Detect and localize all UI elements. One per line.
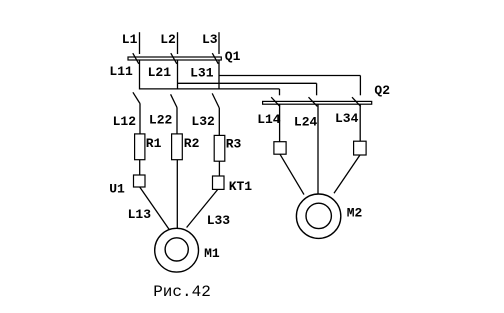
wire L24 segment (to motor M2) [317,104,319,194]
svg-text:Q2: Q2 [374,83,390,98]
Q1 pole 2 contact tick [171,53,177,64]
wire R2 to motor M1 [176,160,178,229]
svg-text:R1: R1 [146,136,162,151]
wire branch L11 to Q2 (horizontal) [140,88,280,90]
svg-text:L2: L2 [160,32,176,47]
svg-text:L11: L11 [109,64,133,79]
svg-text:L21: L21 [148,65,172,80]
resistor R2 [172,134,183,160]
wire L32 to R3 [218,108,220,135]
motor M2 outer circle [296,194,340,238]
svg-text:M2: M2 [347,205,363,220]
wire KT1 to motor M1 (diagonal L33) [187,189,218,227]
Q2 pole 2 contact tick [309,97,318,106]
svg-text:L31: L31 [190,65,214,80]
svg-text:Рис.42: Рис.42 [153,283,211,301]
svg-text:R3: R3 [226,136,242,151]
wire Q2 pole3 feed drop [359,76,361,96]
wire L11 vertical segment [139,60,141,90]
Q2 pole 1 contact tick [271,97,280,106]
wire branch L21 to Q2 (horizontal) [178,82,317,84]
svg-text:L33: L33 [207,213,231,228]
wire L3 feed [218,32,220,54]
svg-text:L12: L12 [113,114,137,129]
svg-text:L34: L34 [335,111,359,126]
wire L12 to R1 [139,104,141,134]
contact blade L12 [133,92,140,104]
svg-text:L32: L32 [191,114,215,129]
wire L1 feed [139,32,141,54]
wire L2 feed [177,32,179,54]
wire U1 to motor M1 (diagonal L13) [140,187,170,230]
svg-text:L13: L13 [128,207,152,222]
device KT1 box [213,176,225,189]
device U1 box [134,175,146,187]
wire L34 box to motor M2 (diagonal) [334,155,360,193]
wire R3 to KT1 [218,161,220,176]
terminal box on L14 [274,142,286,155]
svg-text:L3: L3 [202,32,218,47]
motor M1 outer circle [155,228,199,272]
wire R1 to U1 [139,160,141,175]
Q2 pole 3 contact tick [352,97,361,106]
svg-text:L14: L14 [257,112,281,127]
wire Q2 pole2 feed drop [316,83,318,95]
svg-text:L22: L22 [149,112,173,127]
wire L34 segment [359,104,361,141]
motor M1 inner circle [165,238,188,261]
contact blade L22 [171,94,177,107]
svg-text:R2: R2 [184,136,200,151]
svg-text:Q1: Q1 [225,49,241,64]
circuit breaker Q2 bar [263,101,372,104]
wire Q2 pole1 feed drop [279,89,281,95]
Q1 pole 3 contact tick [212,53,218,64]
svg-text:KT1: KT1 [229,179,253,194]
svg-text:L24: L24 [294,114,318,129]
wire L22 to R2 [176,108,178,134]
wire L31 vertical segment [218,60,220,90]
wire L14 box to motor M2 (diagonal) [280,154,304,194]
svg-text:L1: L1 [122,32,138,47]
svg-text:M1: M1 [204,246,220,261]
circuit breaker Q1 bar [128,57,221,60]
resistor R3 [214,135,225,161]
motor M2 inner circle [306,203,331,228]
wire branch L31 to Q2 (horizontal) [219,75,360,77]
resistor R1 [135,134,145,160]
contact blade L32 [212,93,219,108]
Q1 pole 1 contact tick [133,53,139,64]
terminal box on L34 [354,141,367,155]
svg-text:U1: U1 [109,181,125,196]
wire L21 vertical segment [177,60,179,90]
wire L14 segment [279,104,281,142]
